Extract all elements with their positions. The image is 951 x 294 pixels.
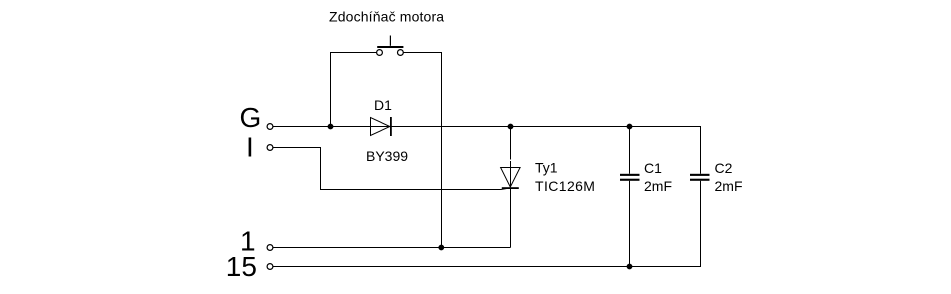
svg-text:Zdochíňač motora: Zdochíňač motora: [329, 9, 444, 25]
svg-text:BY399: BY399: [366, 148, 408, 164]
capacitor C1: plates: [620, 174, 640, 176]
terminal I: open circle: [267, 145, 273, 151]
wire: push button right leg (button down to terminal-1 net): [403, 53, 441, 248]
thyristor Ty1: triangle: [501, 168, 520, 188]
wire: main horizontal net from terminal G to C2 (y=126.5): [273, 126, 701, 128]
terminal 1: open circle: [267, 245, 273, 251]
wire: capacitor C1 branch vertical: [629, 127, 631, 267]
wire: net from terminal 1 to thyristor cathode (y=247): [273, 247, 511, 249]
terminal 15: open circle: [267, 264, 273, 270]
wire: thyristor branch vertical (anode junction down to cathode corner): [510, 127, 512, 248]
svg-text:C2: C2: [715, 160, 733, 176]
svg-text:D1: D1: [374, 97, 392, 113]
push button S1: actuator bar: [377, 46, 403, 48]
svg-text:2mF: 2mF: [644, 178, 672, 194]
junction dot: C1 bottom on terminal-15 net: [627, 264, 633, 270]
diode D1: triangle: [371, 118, 390, 136]
push button S1: plunger stem: [389, 36, 391, 46]
junction dot: C1 top on G net: [627, 124, 633, 130]
wire: capacitor C2 branch vertical: [700, 127, 702, 267]
push button S1: left contact circle: [377, 50, 383, 56]
svg-text:15: 15: [226, 251, 257, 282]
svg-text:Ty1: Ty1: [535, 160, 558, 176]
push button S1: right contact circle: [398, 50, 404, 56]
wire: push button left leg (junction on G net up to button): [331, 53, 377, 127]
capacitor C2: plates: [690, 174, 710, 176]
wire: gate net from terminal I (right, down, right, hook to gate): [273, 148, 510, 190]
svg-text:TIC126M: TIC126M: [535, 178, 595, 194]
junction dot: button left leg on G net: [328, 124, 334, 130]
junction dot: thyristor anode on G net: [508, 124, 514, 130]
terminal G: open circle: [267, 124, 273, 130]
svg-text:I: I: [246, 132, 254, 163]
diode D1: cathode bar: [390, 117, 392, 136]
junction dot: button right leg on terminal-1 net: [438, 245, 444, 251]
thyristor Ty1: cathode bar: [502, 187, 519, 189]
svg-text:G: G: [240, 102, 262, 133]
svg-text:C1: C1: [644, 160, 662, 176]
svg-text:2mF: 2mF: [715, 178, 743, 194]
wire: bottom net from terminal 15 to C2 (y=265.5): [273, 266, 701, 268]
